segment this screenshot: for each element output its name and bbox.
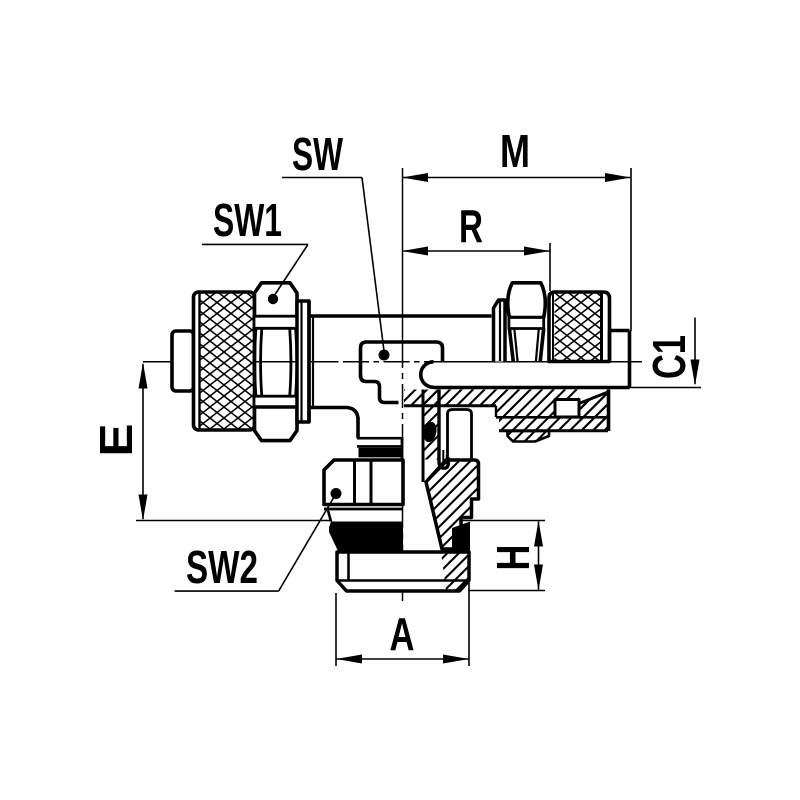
left end stub [172,331,194,391]
svg-text:R: R [459,200,483,252]
clamp hook wall and curl [439,390,449,469]
o-ring section blob [422,421,439,444]
counterbore notch outline [448,410,472,460]
branch wall trapezoid section [426,460,479,549]
band B nut section lower [499,418,609,431]
tube exposed end above axis [610,329,630,333]
left waist and SW2 nut (exterior) [356,417,360,438]
white wedge above clamp right [579,390,608,404]
black band 2 left [329,522,403,552]
hex nut right (top half) [508,283,546,318]
left knurl body [194,292,255,430]
clamp white notch [555,400,579,418]
dimension M [402,177,631,179]
washer right [494,300,506,362]
dimension A [336,658,469,660]
centerline horizontal main axis [143,361,333,363]
svg-text:A: A [390,608,415,660]
wall strip right of bore [423,390,439,460]
centerline vertical branch axis [402,168,404,344]
barrel bottom edge left [309,408,358,420]
washer left [297,301,309,422]
svg-text:C1: C1 [643,335,695,379]
svg-text:SW: SW [292,128,343,180]
svg-text:H: H [487,545,539,571]
lower tab [508,431,550,442]
svg-text:M: M [500,125,530,177]
barrel left edge at washer [307,301,311,422]
dimension E [142,364,144,519]
knurl right (top half) [549,292,610,362]
black band 1 upper [359,448,403,458]
skirt below nut [328,511,331,522]
right block under knurl [579,392,609,432]
dimension H [538,522,540,590]
dimension C1 [694,318,696,385]
stub right hatched [441,552,469,591]
tube lower half with round end [421,362,434,388]
svg-text:E: E [90,424,142,457]
svg-text:SW1: SW1 [213,194,282,246]
SW2 hex nut [324,460,403,505]
left hex nut SW1 [255,283,298,317]
dimension R [402,250,550,252]
svg-text:SW2: SW2 [186,541,258,593]
black band right of wall [452,522,470,552]
band A body section under tube [404,390,609,418]
threaded stub [337,552,469,591]
barrel top edge [309,314,492,318]
